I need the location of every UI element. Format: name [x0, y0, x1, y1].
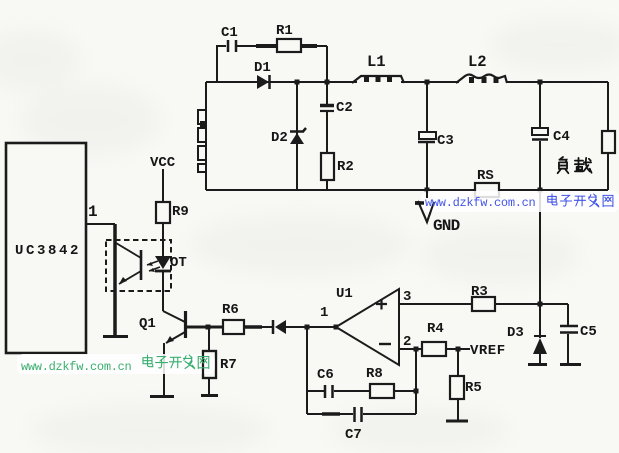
svg-text:OT: OT	[170, 255, 187, 271]
svg-text:2: 2	[403, 334, 411, 350]
svg-text:R7: R7	[220, 357, 237, 373]
svg-text:R2: R2	[337, 159, 354, 175]
svg-text:C7: C7	[345, 427, 362, 443]
svg-text:R3: R3	[471, 284, 488, 300]
svg-text:C3: C3	[437, 133, 454, 149]
svg-text:UC3842: UC3842	[15, 243, 81, 259]
svg-text:1: 1	[88, 203, 98, 221]
svg-text:R5: R5	[465, 380, 482, 396]
svg-text:VCC: VCC	[150, 155, 176, 171]
svg-text:www.dzkfw.com.cn: www.dzkfw.com.cn	[425, 196, 536, 210]
svg-text:R4: R4	[427, 321, 444, 337]
svg-text:D1: D1	[254, 60, 271, 76]
svg-text:U1: U1	[336, 286, 353, 302]
svg-text:VREF: VREF	[470, 343, 506, 359]
svg-text:R9: R9	[172, 204, 189, 220]
svg-text:D3: D3	[507, 325, 524, 341]
svg-text:R6: R6	[222, 302, 239, 318]
svg-text:www.dzkfw.com.cn: www.dzkfw.com.cn	[21, 360, 132, 374]
svg-text:R8: R8	[366, 366, 383, 382]
svg-text:C4: C4	[553, 129, 570, 145]
svg-text:Q1: Q1	[139, 316, 156, 332]
svg-text:1: 1	[320, 305, 328, 321]
svg-text:L1: L1	[367, 53, 386, 71]
svg-text:GND: GND	[433, 217, 460, 235]
svg-text:C5: C5	[580, 324, 597, 340]
svg-text:L2: L2	[468, 53, 487, 71]
svg-text:3: 3	[403, 289, 411, 305]
svg-text:C6: C6	[317, 367, 334, 383]
svg-text:C1: C1	[221, 25, 238, 41]
svg-text:D2: D2	[271, 130, 288, 146]
svg-text:C2: C2	[336, 100, 353, 116]
svg-text:RS: RS	[477, 168, 494, 184]
svg-text:R1: R1	[276, 23, 293, 39]
